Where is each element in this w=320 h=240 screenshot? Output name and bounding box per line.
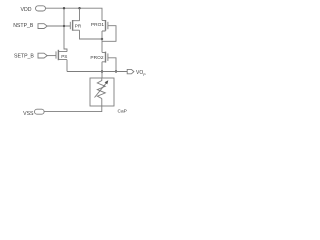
svg-text:VOP: VOP — [136, 70, 146, 77]
junction at VDD rail x79.5 — [78, 7, 80, 9]
svg-text:VSS: VSS — [23, 111, 34, 117]
pin VDD — [36, 6, 46, 11]
svg-text:PR: PR — [75, 23, 82, 28]
transistor PS — [55, 51, 57, 58]
svg-text:NSTP_B: NSTP_B — [13, 23, 34, 29]
svg-text:PS: PS — [61, 54, 67, 59]
pin NSTP_B — [38, 24, 47, 29]
wire PRO2 gate return to output — [108, 58, 116, 72]
capacitor CaP arrow — [95, 83, 107, 98]
transistor PR — [69, 22, 71, 29]
svg-text:SETP_B: SETP_B — [14, 54, 34, 60]
svg-text:VDD: VDD — [21, 7, 32, 13]
capacitor CaP zigzag — [97, 78, 105, 99]
svg-text:PRO1: PRO1 — [91, 22, 104, 28]
capacitor CaP box — [90, 78, 114, 106]
wire VDD top rail — [46, 8, 103, 20]
wire PRO1 gate return — [102, 26, 116, 42]
svg-text:CaP: CaP — [118, 109, 127, 115]
pin VOp — [127, 69, 134, 73]
wire SETP_B to PS gate — [47, 55, 56, 57]
wire node between PRO1 and PRO2 — [101, 31, 103, 52]
junction NSTP_B crossing — [63, 25, 65, 27]
transistor PRO2 — [107, 53, 109, 61]
junction at VDD rail x64 — [63, 7, 65, 9]
svg-text:PRO2: PRO2 — [90, 55, 103, 61]
wire VDD branch down to PS source — [64, 8, 67, 51]
transistor PRO1 — [107, 22, 109, 29]
wire NSTP_B to PR gate — [47, 25, 70, 27]
wire PS drain down to output net — [66, 60, 68, 72]
wire PR source up to rail — [79, 8, 81, 21]
pin VSS — [35, 109, 45, 114]
junction PRO2 gate at output — [115, 70, 117, 72]
wire PRO2 drain down to capacitor — [101, 62, 103, 78]
wire PR drain to mid node — [80, 30, 103, 39]
wire capacitor bottom to VSS — [44, 99, 102, 112]
junction PR drain at node — [101, 38, 103, 40]
wire output net — [67, 71, 127, 73]
pin SETP_B — [38, 53, 47, 58]
junction output at x102 — [101, 70, 103, 72]
